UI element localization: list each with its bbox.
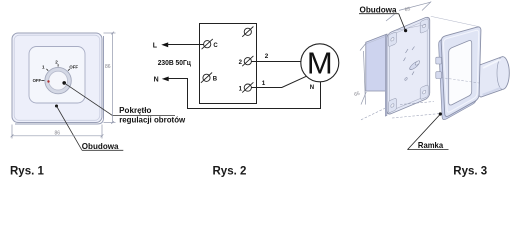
- wire L to C: [167, 44, 204, 46]
- label Obudowa rys3: [360, 4, 397, 14]
- dial tick 135: [46, 69, 48, 71]
- dimension 86 bottom: [11, 125, 104, 139]
- knob ring: [45, 67, 71, 93]
- svg-text:86: 86: [55, 131, 61, 137]
- leader to Ramka label: [408, 112, 449, 149]
- dial label OFF right: [69, 64, 78, 69]
- svg-text:Obudowa: Obudowa: [82, 142, 119, 151]
- dial tick left: [41, 80, 44, 82]
- corner tab TR: [420, 18, 428, 33]
- corner tab TL: [388, 32, 396, 47]
- frame (Ramka): [436, 27, 481, 116]
- svg-text:1: 1: [42, 64, 45, 69]
- dimension 86 right: [104, 32, 116, 124]
- svg-text:N: N: [154, 77, 159, 84]
- projection dash lower-left: [361, 108, 387, 120]
- svg-text:Rys. 3: Rys. 3: [453, 165, 487, 177]
- title Rys. 2: [213, 165, 247, 177]
- screws and clamp details: [406, 49, 409, 53]
- svg-text:L: L: [153, 43, 158, 50]
- svg-text:2: 2: [55, 59, 58, 64]
- regulator front cover (Obudowa): [12, 33, 102, 123]
- wire number 2: [265, 53, 269, 60]
- regulator box: [200, 24, 257, 104]
- housing plate side thickness: [385, 34, 387, 116]
- wire number 1: [262, 80, 266, 87]
- svg-text:230В 50Гц: 230В 50Гц: [158, 60, 192, 67]
- svg-text:OFF: OFF: [33, 78, 42, 83]
- label Obudowa rys1: [82, 142, 119, 151]
- N arrow and label: [154, 77, 169, 84]
- label Pokretlo regulacji obrotow: [119, 106, 186, 124]
- svg-text:B: B: [213, 77, 218, 83]
- dial tick top: [57, 64, 59, 67]
- knob position red dot: [47, 80, 49, 82]
- housing rear box side wall: [366, 34, 387, 91]
- projection line top to frame: [431, 16, 480, 27]
- label Ramka: [418, 140, 444, 150]
- housing front plate: [387, 16, 430, 116]
- motor N label: [310, 85, 314, 91]
- projection dash mid: [400, 102, 434, 105]
- regulator front cover shadow: [15, 36, 104, 124]
- svg-text:1: 1: [262, 80, 266, 87]
- dimension 65 top: [386, 2, 431, 22]
- wire terminal2 to motor: [251, 61, 301, 63]
- frame (Ramka) back plate: [439, 30, 479, 119]
- projection dashes bottom: [392, 113, 446, 118]
- svg-text:Pokrętło: Pokrętło: [119, 106, 151, 115]
- svg-text:C: C: [213, 43, 218, 49]
- terminal 1: [239, 82, 254, 92]
- leader to Obudowa rys3: [359, 14, 407, 33]
- L arrow and label: [153, 42, 168, 49]
- corner tab BL: [388, 98, 396, 113]
- motor M: [301, 44, 339, 82]
- label 230V 50Hz: [158, 60, 192, 67]
- axis dash to knob: [441, 78, 479, 84]
- leader to knob label: [64, 83, 175, 116]
- svg-text:Ramka: Ramka: [418, 140, 444, 150]
- front panel inner plate: [29, 47, 85, 104]
- svg-text:86: 86: [105, 64, 111, 70]
- wire terminal1 to motor: [251, 76, 306, 87]
- svg-text:2: 2: [265, 53, 269, 60]
- svg-text:M: M: [307, 45, 333, 80]
- title Rys. 3: [453, 165, 487, 177]
- svg-text:OFF: OFF: [69, 64, 78, 69]
- svg-text:Rys. 1: Rys. 1: [10, 165, 44, 177]
- terminal B: [201, 73, 218, 83]
- knob cylinder: [476, 57, 509, 97]
- dial label OFF left: [33, 78, 42, 83]
- leader to Obudowa label: [55, 105, 123, 151]
- wire N around box to motor: [168, 79, 321, 109]
- knob leader anchor dot: [62, 81, 66, 85]
- frame clips: [436, 57, 442, 64]
- dial tick 45: [68, 69, 70, 71]
- terminal 2: [239, 56, 254, 66]
- svg-text:Rys. 2: Rys. 2: [213, 165, 247, 177]
- rear box hidden top edge: [395, 25, 426, 31]
- title Rys. 1: [10, 165, 44, 177]
- svg-text:N: N: [310, 85, 314, 91]
- svg-text:regulacji obrotów: regulacji obrotów: [119, 115, 186, 124]
- terminal C: [202, 39, 219, 49]
- corner tab BR: [420, 84, 428, 99]
- dial label 2: [55, 59, 58, 64]
- dial label 1: [42, 64, 45, 69]
- svg-text:Obudowa: Obudowa: [360, 4, 397, 14]
- terminal top right: [242, 27, 253, 37]
- dimension 65 left: [353, 43, 366, 105]
